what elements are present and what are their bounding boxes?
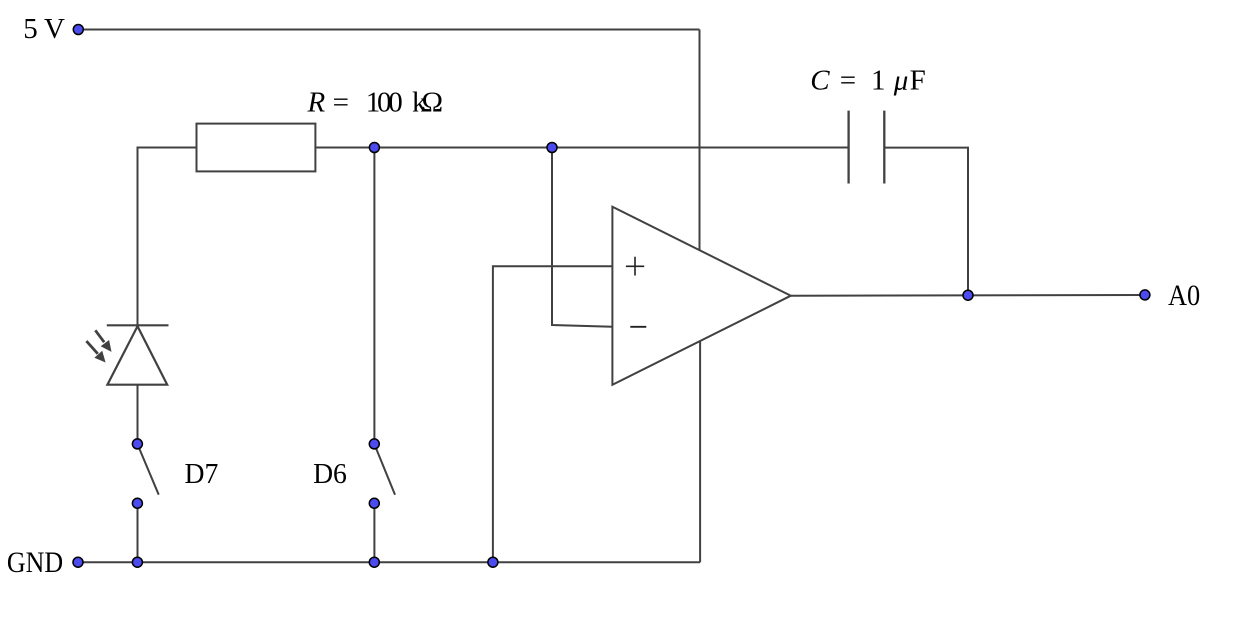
- node resistor-D6 junction dot: [369, 143, 379, 153]
- wire inverting input feed: [552, 148, 612, 327]
- photodiode D1 triangle: [107, 326, 167, 385]
- wire 5V drop to op-amp V+ pin: [699, 30, 701, 251]
- wire op-amp V- pin to GND: [699, 341, 701, 562]
- svg-text:A0: A0: [1168, 280, 1200, 312]
- photodiode D1 cathode bar: [107, 324, 169, 326]
- op-amp U1 body: [612, 207, 790, 385]
- wire resistor left lead: [138, 148, 197, 326]
- svg-text:R=100kΩ: R=100kΩ: [307, 87, 444, 119]
- node GND-D7 junction dot: [132, 557, 142, 567]
- wire D6 column lower: [373, 503, 375, 562]
- svg-text:D6: D6: [313, 458, 347, 490]
- op-amp U1 plus input marking: [626, 257, 644, 276]
- op-amp U1 minus input marking: [630, 326, 646, 328]
- wire 5V top rail: [78, 29, 699, 31]
- photodiode D1 light arrow lower: [86, 341, 105, 362]
- wire D6 column upper: [373, 148, 375, 444]
- resistor R1 body: [197, 124, 316, 172]
- node output-capacitor junction dot: [963, 290, 973, 300]
- node switch D7 bottom dot: [132, 498, 142, 508]
- wire non-inverting input feed: [493, 266, 613, 562]
- capacitor C1 left plate: [847, 111, 849, 184]
- node 5V terminal dot: [73, 25, 83, 35]
- wire photodiode lower lead: [137, 385, 139, 444]
- switch D6 blade: [375, 445, 395, 495]
- photodiode D1 light arrow upper: [95, 330, 111, 352]
- node inverting feed junction dot: [547, 143, 557, 153]
- wire resistor right lead to capacitor: [315, 147, 848, 149]
- svg-text:GND: GND: [7, 547, 63, 579]
- node switch D6 top dot: [369, 439, 379, 449]
- node GND terminal dot: [73, 557, 83, 567]
- svg-text:D7: D7: [185, 458, 219, 490]
- node switch D6 bottom dot: [369, 498, 379, 508]
- node A0 terminal dot: [1140, 290, 1150, 300]
- node GND-D6 junction dot: [369, 557, 379, 567]
- wire op-amp output to A0: [791, 294, 1145, 297]
- node switch D7 top dot: [132, 439, 142, 449]
- node GND-noninverting junction dot: [488, 557, 498, 567]
- switch D7 blade: [138, 445, 159, 495]
- wire D7 column lower: [137, 503, 139, 562]
- capacitor C1 right plate: [883, 111, 885, 184]
- svg-text:C=1μF: C=1μF: [810, 64, 925, 96]
- wire GND rail: [78, 561, 700, 563]
- svg-text:5V: 5V: [23, 13, 65, 45]
- wire capacitor right lead: [884, 148, 968, 296]
